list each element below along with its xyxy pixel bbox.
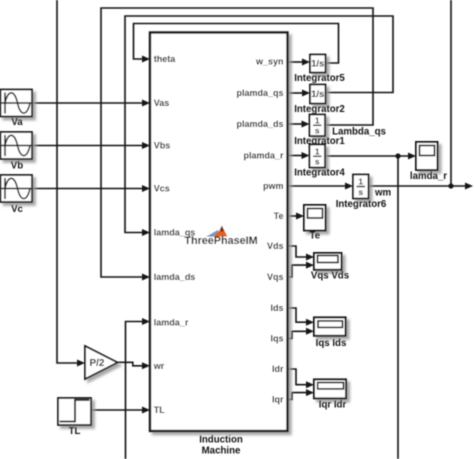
svg-text:Vqs: Vqs [267, 272, 284, 282]
step source TL [58, 398, 91, 425]
wire plamda_ds to Integrator1 [288, 123, 303, 125]
svg-text:s: s [358, 187, 363, 197]
junction node on Integrator4 output [395, 153, 400, 158]
wire P/2 output to wr [118, 362, 145, 366]
svg-text:lamda_qs: lamda_qs [154, 228, 196, 238]
svg-text:plamda_ds: plamda_ds [236, 119, 283, 129]
integrator U5 block [310, 55, 326, 73]
sine source Vb [1, 132, 33, 159]
svg-text:1: 1 [315, 147, 320, 157]
wire plamda_r to Integrator4 [288, 155, 303, 157]
scope Iqr Idr [314, 379, 346, 398]
wire Te to Te scope [288, 215, 298, 217]
svg-text:Integrator2: Integrator2 [294, 104, 345, 115]
wire lamda_qs feedback loop from Integrator2 [125, 16, 393, 233]
svg-text:Vds: Vds [267, 241, 284, 251]
svg-text:1: 1 [358, 177, 363, 187]
svg-text:Iqr Idr: Iqr Idr [319, 400, 347, 411]
svg-text:Te: Te [310, 231, 321, 242]
MATLAB logo [206, 226, 228, 237]
wire wm branch up to top edge [450, 0, 452, 186]
wire plamda_qs to Integrator2 [288, 92, 304, 94]
svg-text:Te: Te [274, 211, 284, 221]
integrator U1 block [310, 115, 326, 137]
svg-text:1/s: 1/s [311, 89, 324, 100]
scope Te [304, 205, 326, 231]
scope lamda_r [416, 142, 438, 170]
svg-text:Iqr: Iqr [272, 395, 284, 405]
wire Va to Vas [32, 102, 144, 104]
svg-text:lamda_r: lamda_r [154, 318, 189, 328]
scope Vqs Vds [314, 253, 342, 270]
svg-text:Induction: Induction [199, 435, 243, 446]
svg-text:Vbs: Vbs [154, 141, 171, 151]
wire Iqr to scope [288, 393, 309, 400]
svg-text:plamda_r: plamda_r [243, 151, 284, 161]
wire w_syn to Integrator5 [288, 61, 304, 63]
gain P/2 [85, 346, 118, 379]
wire Vds to scope [288, 246, 309, 257]
svg-text:Vqs Vds: Vqs Vds [311, 271, 349, 282]
svg-text:ThreePhaseIM: ThreePhaseIM [184, 235, 257, 247]
svg-text:Vb: Vb [11, 161, 23, 172]
svg-text:Idr: Idr [272, 364, 284, 374]
sine source Vc [1, 175, 33, 202]
integrator U6 block [353, 175, 369, 199]
svg-text:Ids: Ids [270, 303, 283, 313]
svg-text:Vcs: Vcs [154, 184, 170, 194]
input arrowheads into Induction Machine [142, 56, 150, 63]
svg-text:theta: theta [154, 54, 176, 64]
svg-text:Integrator5: Integrator5 [294, 73, 345, 84]
svg-text:wm: wm [374, 188, 392, 199]
svg-text:pwm: pwm [263, 181, 284, 191]
wire Idr to scope [288, 369, 309, 385]
integrator U4 block [310, 145, 326, 168]
wire P/2 feed vertical from top edge [57, 0, 79, 363]
svg-text:w_syn: w_syn [255, 57, 284, 67]
wire lamda_r feed vertical from bottom edge [126, 322, 145, 459]
wire plamda_r integral branch down to bottom edge [397, 156, 399, 459]
svg-text:TL: TL [154, 405, 165, 415]
svg-text:Iqs: Iqs [270, 334, 283, 344]
scope Iqs Ids [314, 317, 346, 335]
svg-text:P/2: P/2 [89, 358, 104, 369]
svg-text:lamda_ds: lamda_ds [154, 272, 196, 282]
svg-text:1: 1 [315, 116, 320, 126]
svg-text:plamda_qs: plamda_qs [236, 88, 283, 98]
svg-text:Integrator4: Integrator4 [294, 168, 345, 179]
svg-text:s: s [315, 157, 320, 167]
svg-text:Va: Va [11, 117, 23, 128]
svg-text:Integrator6: Integrator6 [336, 199, 387, 210]
junction node on wm wire [448, 183, 453, 188]
induction machine block [150, 33, 288, 432]
svg-text:lamda_r: lamda_r [410, 171, 447, 182]
wire Ids to scope [288, 308, 309, 322]
wire TL step to TL port [91, 409, 144, 411]
svg-text:wr: wr [153, 361, 165, 371]
integrator U2 block [310, 85, 326, 104]
wire Vb to Vbs [32, 145, 144, 147]
wire theta feedback loop from Integrator5 [134, 24, 339, 64]
svg-text:Lambda_qs: Lambda_qs [332, 127, 386, 138]
wire pwm to Integrator6 [288, 185, 347, 187]
svg-text:Machine: Machine [202, 446, 241, 457]
svg-text:TL: TL [69, 426, 81, 437]
wire Vqs to scope [288, 265, 309, 277]
svg-text:Vas: Vas [154, 98, 170, 108]
wire lamda_ds feedback loop from Integrator1 (Lambda_qs) [101, 8, 373, 277]
svg-text:Iqs Ids: Iqs Ids [316, 338, 347, 349]
svg-text:Vc: Vc [11, 204, 23, 215]
svg-text:1/s: 1/s [311, 59, 324, 70]
wire Vc to Vcs [32, 188, 144, 190]
wire Integrator6 output wm to right edge [369, 185, 467, 187]
wire Integrator4 output to lamda_r scope [325, 155, 410, 157]
sine source Va [1, 90, 33, 117]
wire Iqs to scope [288, 331, 309, 338]
svg-text:s: s [315, 126, 320, 136]
